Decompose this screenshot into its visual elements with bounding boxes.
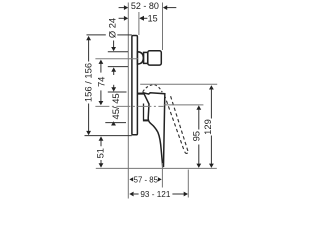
svg-text:74: 74 (96, 77, 107, 87)
lever body (144, 93, 165, 167)
lever base ledge (138, 93, 144, 95)
svg-text:Ø 24: Ø 24 (107, 18, 118, 38)
escutcheon plate (132, 36, 138, 135)
extension line plate top left (87, 34, 106, 36)
dimension 51 (95, 136, 106, 167)
extension line lever centerline right (164, 104, 204, 106)
extension line lever tip (161, 163, 163, 188)
svg-text:129: 129 (202, 119, 213, 135)
svg-text:15: 15 (148, 14, 158, 24)
svg-text:156 / 156: 156 / 156 (83, 63, 94, 102)
dashed raised lever edge 1 (164, 95, 184, 152)
svg-text:52 - 80: 52 - 80 (131, 1, 159, 11)
dimension dia24 lower outside arrow / 45-45 upper boundary (108, 71, 127, 92)
dashed raised lever dome (143, 85, 162, 93)
extension line raised lever tip (187, 170, 189, 198)
lever neck bottom step (143, 119, 149, 121)
shut-off knob collar (138, 52, 144, 64)
centerline mixer valve (95, 105, 163, 107)
dimension 129 (202, 85, 214, 168)
extension line raised lever top (140, 83, 217, 85)
dimension 156/156 (83, 36, 94, 135)
extension line plate front (138, 12, 140, 35)
extension line knob front (162, 3, 164, 51)
svg-text:93 - 121: 93 - 121 (140, 190, 170, 199)
dimension 95 (190, 105, 201, 167)
dimension 52 - 80 (119, 1, 177, 11)
dimension 45/45 (105, 93, 126, 125)
dimension 74 (96, 60, 107, 106)
ground line (96, 167, 217, 169)
centerline shut-off valve (95, 58, 138, 60)
dashed raised lever edge 2 (171, 96, 189, 152)
lever neck left edge (143, 104, 145, 120)
dimension 15 (119, 14, 158, 24)
svg-text:95: 95 (190, 131, 201, 141)
dimension 93 - 121 (129, 190, 188, 199)
dimension dia24 arrows (108, 41, 128, 72)
svg-text:51: 51 (95, 148, 106, 158)
shut-off knob handle (148, 51, 162, 65)
svg-text:57 - 85: 57 - 85 (134, 175, 159, 184)
shut-off knob neck (144, 52, 148, 63)
extension line plate bottom (85, 135, 132, 137)
dashed raised lever tip (185, 152, 188, 154)
dimension 57 - 85 (129, 175, 161, 184)
wall line (127, 3, 129, 199)
